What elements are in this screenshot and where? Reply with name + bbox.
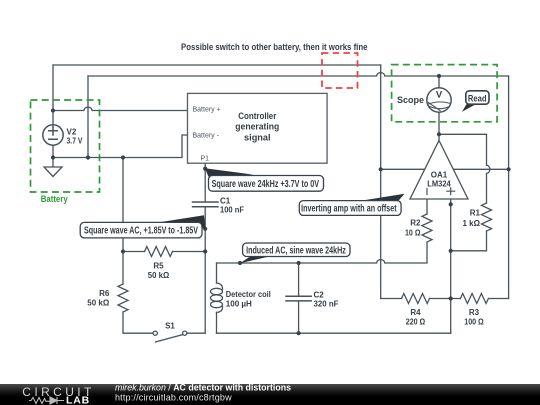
label C1 value (220, 196, 244, 214)
wire voltmeter stub bottom (438, 112, 440, 134)
footer logo resistor diode glyph (29, 397, 64, 404)
wire op-amp output stub and feedback to R1 top with hop over y=169.3 (439, 134, 490, 203)
node noninverting pin (449, 202, 453, 206)
node opamp output (437, 132, 441, 136)
svg-text:LM324: LM324 (427, 180, 451, 189)
wire tank top rail y=263 with hop over x=381, to R2 bottom corner (217, 242, 428, 263)
node x88 minus rail (86, 155, 90, 159)
svg-text:generating: generating (235, 122, 279, 133)
label R3 value (464, 308, 484, 327)
node battery plus (51, 108, 55, 112)
footer bar (0, 384, 540, 405)
node battery minus (51, 155, 55, 159)
node x123 minus rail (121, 155, 125, 159)
switch S1 (153, 331, 187, 342)
svg-text:1 kΩ: 1 kΩ (463, 219, 481, 228)
callout read box (466, 91, 489, 104)
svg-text:S1: S1 (165, 322, 175, 331)
svg-text:R5: R5 (153, 262, 164, 271)
svg-text:Inverting amp with an offset: Inverting amp with an offset (301, 204, 397, 215)
capacitor C1 (193, 202, 219, 207)
label V2 value (67, 128, 84, 146)
svg-text:R3: R3 (469, 308, 480, 317)
wire R5 rail y=251.5 left lead (123, 251, 145, 253)
inductor detector coil (211, 283, 223, 312)
wire R3 left lead (451, 298, 461, 300)
wire R4 right lead (430, 298, 451, 300)
svg-text:50 kΩ: 50 kΩ (87, 299, 110, 308)
controller title text (235, 111, 279, 144)
svg-text:signal: signal (244, 132, 271, 143)
wire C2 stub bottom (298, 301, 300, 333)
node R5 right (203, 249, 207, 253)
svg-text:10 Ω: 10 Ω (405, 229, 421, 238)
wire tank loop left vertical with coil gap (216, 263, 218, 283)
label R2 value (405, 219, 421, 238)
wire scope right corner down x=508.6 (508, 76, 510, 299)
wire coil bottom to tank bottom (216, 312, 218, 333)
wire battery stub top (52, 65, 54, 125)
svg-text:100 nF: 100 nF (220, 205, 244, 214)
svg-text:Read: Read (468, 93, 487, 103)
svg-text:Detector coil: Detector coil (226, 290, 271, 299)
resistor R1 (482, 203, 492, 231)
svg-text:V2: V2 (67, 128, 77, 137)
callout square wave AC wedge (160, 215, 206, 228)
node C2 bottom (297, 331, 301, 335)
label R4 value (406, 308, 426, 327)
scope green dashed region (392, 65, 498, 122)
wire mid horizontal y=169.5 from x=381 to x=508.6 (381, 168, 509, 170)
red dashed region possible switch (322, 53, 358, 88)
node R4 R3 junction (449, 296, 453, 300)
controller box (188, 93, 328, 163)
svg-text:100 Ω: 100 Ω (464, 318, 484, 327)
wire R4 left lead (381, 298, 402, 300)
callout square wave AC box (80, 222, 202, 238)
callout induced AC box (243, 243, 350, 257)
wire top rail from battery plus to right column (53, 64, 381, 66)
svg-text:LAB: LAB (66, 395, 90, 405)
wire R1 bottom to noninverting column (451, 231, 487, 251)
svg-text:C1: C1 (220, 196, 231, 205)
op-amp U OA1 (410, 141, 468, 200)
label OA1 LM324 (427, 171, 451, 189)
svg-text:http://circuitlab.com/c8rtgbw: http://circuitlab.com/c8rtgbw (115, 392, 232, 402)
node induced anchor (238, 261, 242, 265)
node P1 anchor (203, 167, 207, 171)
svg-text:OA1: OA1 (431, 171, 448, 180)
capacitor C2 (286, 296, 311, 301)
node C2 top (297, 261, 301, 265)
svg-text:Battery -: Battery - (193, 133, 220, 140)
wire left vertical x=88 from scope rail to battery minus rail (87, 76, 89, 158)
svg-text:R6: R6 (99, 289, 110, 298)
wire R2 top to op-amp inverting input (426, 199, 428, 214)
resistor R6 (118, 284, 128, 312)
node R1 bottom junction (449, 249, 453, 253)
wire P1 column: P1 stub, C1, down to S1 corner (204, 163, 206, 202)
svg-text:R1: R1 (470, 209, 481, 218)
svg-text:Possible switch to other batte: Possible switch to other battery, then i… (181, 42, 368, 53)
svg-text:R4: R4 (410, 308, 421, 317)
callout inverting amp wedge (359, 194, 405, 201)
resistor R2 (422, 214, 432, 242)
callout inverting amp box (299, 201, 401, 216)
svg-text:220 Ω: 220 Ω (406, 318, 426, 327)
node scope top (437, 74, 441, 78)
svg-text:Induced AC, sine wave 24kHz: Induced AC, sine wave 24kHz (246, 245, 346, 256)
label C2 value (314, 291, 339, 309)
wire battery plus rail y=110 with hop over x=88 (53, 107, 188, 110)
callout square wave 24kHz wedge (205, 168, 254, 177)
node square wave anchor (203, 227, 207, 231)
svg-text:100 µH: 100 µH (226, 299, 252, 308)
node x508 mid (507, 167, 511, 171)
wire bottom rail y=333.2 from tank to x=451 corner up to R4/R3 node (217, 332, 451, 334)
svg-text:50 kΩ: 50 kΩ (148, 271, 170, 280)
svg-text:C2: C2 (314, 291, 325, 300)
svg-text:Square wave AC, +1.85V to -1.8: Square wave AC, +1.85V to -1.85V (84, 226, 198, 237)
wire C2 stub top (298, 263, 300, 296)
node x381 mid (379, 167, 383, 171)
voltage source V2 (43, 125, 63, 145)
wire R6 bottom to S1 left (123, 312, 153, 333)
wire battery minus rail y=157.5 with jog up to controller Battery- pin (53, 135, 188, 158)
label R5 value (148, 262, 170, 281)
ground (44, 158, 62, 177)
wire scope rail y=76 with hop over x=381 (88, 73, 509, 76)
wire battery stub bottom to ground node (52, 145, 54, 157)
svg-text:mirek.burkon / AC detector wit: mirek.burkon / AC detector with distorti… (115, 383, 291, 393)
wire right column x=381 vertical from top rail down to R4 corner (380, 65, 382, 299)
callout square wave 24kHz box (209, 176, 324, 192)
resistor R4 (402, 294, 430, 304)
wire R5 right lead (173, 251, 206, 253)
svg-text:320 nF: 320 nF (314, 300, 339, 309)
voltmeter scope (427, 88, 451, 112)
node R5 left (121, 249, 125, 253)
svg-text:V: V (436, 89, 443, 100)
wire left column x=123 from battery minus rail down to R6 (122, 158, 124, 285)
svg-text:Scope: Scope (397, 95, 424, 105)
svg-text:Battery: Battery (41, 194, 68, 204)
wire op-amp noninverting column x=450.7 down to bottom rail (450, 199, 452, 333)
label R6 value (87, 289, 110, 308)
callout read wedge (462, 104, 476, 112)
wire voltmeter stub top (438, 76, 440, 88)
svg-text:Controller: Controller (238, 111, 276, 122)
wire R3 right lead (488, 298, 508, 300)
svg-text:Square wave 24kHz +3.7V to 0V: Square wave 24kHz +3.7V to 0V (212, 179, 320, 190)
resistor R5 (145, 247, 173, 257)
svg-text:R2: R2 (410, 219, 421, 228)
svg-text:Battery +: Battery + (193, 107, 221, 114)
callout induced AC wedge (240, 254, 280, 263)
svg-text:3.7 V: 3.7 V (67, 137, 84, 146)
battery green dashed region (31, 100, 100, 192)
resistor R3 (460, 294, 488, 304)
wire S1 right lead (187, 332, 205, 334)
label detector coil value (226, 290, 271, 308)
label R1 value (463, 209, 481, 228)
svg-text:P1: P1 (201, 156, 210, 163)
